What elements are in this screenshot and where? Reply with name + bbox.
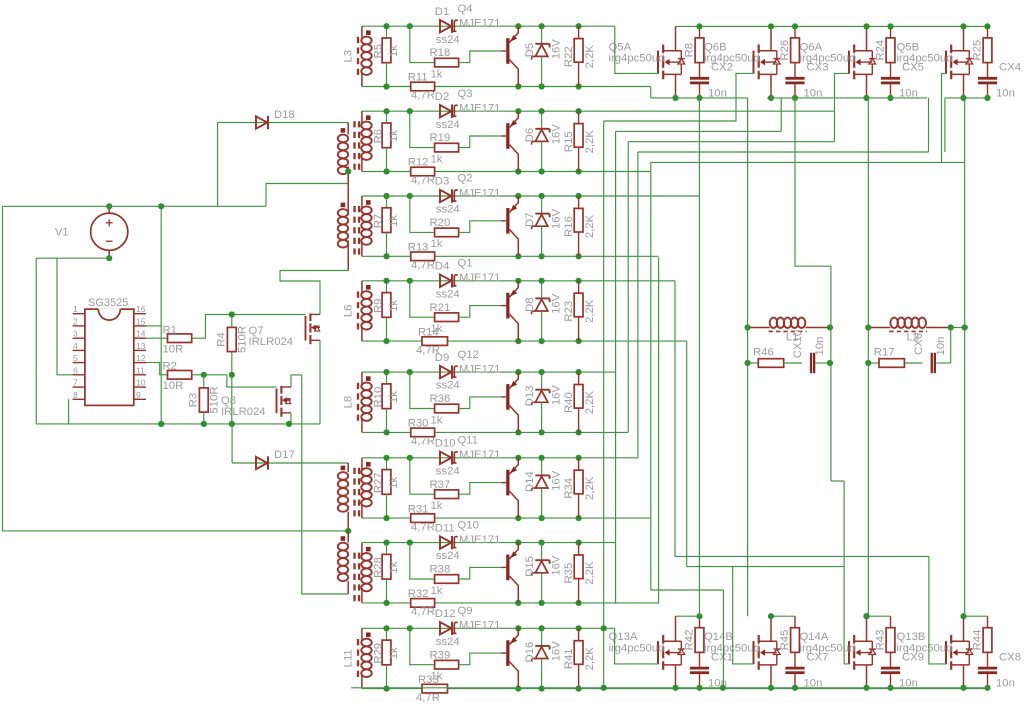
wire staircase U1 and M2 gate xyxy=(604,73,754,121)
IGBT Q13A irg4pc50ud xyxy=(657,641,659,664)
wire U3 left vertical xyxy=(627,142,629,433)
svg-text:R38: R38 xyxy=(430,564,451,576)
svg-text:Q9: Q9 xyxy=(458,605,473,617)
wire Q7 drain up xyxy=(280,271,348,315)
junction dots ground rail xyxy=(158,421,164,427)
wire primary row7 leads xyxy=(347,531,349,543)
wire feed to R37 xyxy=(410,458,435,494)
polarity dot row7 primary xyxy=(341,536,346,541)
transformer L6 secondary winding xyxy=(361,281,363,294)
svg-text:D13: D13 xyxy=(524,386,536,407)
wire D18 branch vertical xyxy=(217,123,219,207)
wire staircase U2 xyxy=(616,130,782,132)
junction dots row1 xyxy=(383,23,389,29)
resistor R36 1k xyxy=(435,404,459,413)
resistor R40 2,2K xyxy=(578,372,580,384)
wire M3 gate riser xyxy=(835,73,850,141)
diode D9 ss24 xyxy=(440,366,451,378)
resistor R24 xyxy=(890,26,892,38)
transistor Q2 MJE171 xyxy=(506,208,509,234)
svg-text:R35: R35 xyxy=(563,563,575,584)
svg-text:2,2K: 2,2K xyxy=(584,561,596,585)
polarity dot row4 secondary xyxy=(366,285,371,290)
resistor R46 xyxy=(748,362,759,364)
svg-text:16V: 16V xyxy=(551,39,563,60)
svg-text:4,7R: 4,7R xyxy=(411,521,435,533)
transformer row7 primary winding xyxy=(338,543,348,551)
junction dots LC group 1 xyxy=(745,324,751,330)
transformer core dashed line row1 xyxy=(357,37,359,75)
diode D12 ss24 xyxy=(440,622,451,634)
resistor R16 2,2K xyxy=(578,196,580,208)
resistor R37 1k xyxy=(435,490,459,499)
wire left edge vertical xyxy=(2,206,4,531)
resistor R4 510R xyxy=(231,315,233,328)
resistor R32 4,7R xyxy=(411,599,435,608)
svg-text:8: 8 xyxy=(73,390,78,400)
svg-text:R46: R46 xyxy=(753,347,774,359)
svg-text:R17: R17 xyxy=(874,347,895,359)
svg-text:12: 12 xyxy=(136,353,146,363)
svg-text:irg4pc50ud: irg4pc50ud xyxy=(609,53,665,65)
wire LC2 to extra vertical xyxy=(951,327,965,329)
resistor R43 xyxy=(890,616,892,628)
junction dots row6 xyxy=(383,455,389,461)
wire U4 right riser xyxy=(928,98,930,152)
capacitor CX4 10n xyxy=(978,77,997,80)
resistor R22 2,2K xyxy=(578,26,580,38)
wire row4 top rail xyxy=(362,280,675,282)
wire D18 horizontal xyxy=(218,122,349,124)
wire long vertical A xyxy=(747,98,749,616)
wire Q8 drain long down xyxy=(291,375,348,594)
svg-text:16V: 16V xyxy=(551,208,563,229)
wire R19 to base of Q3 xyxy=(459,136,501,148)
transformer core dashed line row5 xyxy=(357,383,359,421)
svg-text:D11: D11 xyxy=(435,522,455,534)
transformer core dashed line row2 xyxy=(353,121,355,172)
svg-text:R30: R30 xyxy=(408,418,429,430)
svg-text:16V: 16V xyxy=(551,124,563,145)
wire primary row6 top lead xyxy=(347,463,349,472)
polarity dot row6 primary xyxy=(341,466,346,471)
zener diode D7 16V xyxy=(541,196,543,214)
transformer core dashed line row7 xyxy=(353,553,355,604)
wire staircase U3 xyxy=(628,141,834,143)
svg-text:ss24: ss24 xyxy=(436,119,460,131)
wire feed to R19 xyxy=(410,111,435,147)
wire U1 left vertical xyxy=(603,121,605,688)
resistor R13 4,7R xyxy=(411,252,435,261)
junction dot R4/R2 cross xyxy=(229,372,235,378)
svg-text:MJE171: MJE171 xyxy=(459,103,500,115)
wire row3 top rail xyxy=(362,195,700,197)
svg-text:4: 4 xyxy=(73,341,78,351)
transformer L8 secondary winding xyxy=(361,372,363,385)
svg-text:irg4pc50ud: irg4pc50ud xyxy=(704,53,760,65)
svg-text:10n: 10n xyxy=(996,677,1015,689)
svg-text:R36: R36 xyxy=(430,393,451,405)
wire M8 gate riser xyxy=(929,556,946,664)
svg-text:D14: D14 xyxy=(524,471,536,492)
capacitor CX9 10n xyxy=(881,667,900,670)
svg-text:Q3: Q3 xyxy=(458,88,473,100)
svg-text:10n: 10n xyxy=(935,337,947,356)
transformer row3 primary winding xyxy=(338,209,348,217)
wire bottom unit 4 top rail xyxy=(964,615,988,617)
svg-text:ss24: ss24 xyxy=(436,380,460,392)
wire R44 to CX8 xyxy=(987,652,989,667)
svg-text:D5: D5 xyxy=(524,43,536,57)
svg-text:MJE171: MJE171 xyxy=(459,18,500,30)
svg-text:IRLR024: IRLR024 xyxy=(221,406,266,418)
svg-text:9: 9 xyxy=(136,390,141,400)
svg-text:R37: R37 xyxy=(430,479,451,491)
transformer L8 secondary winding xyxy=(361,458,363,471)
wire R26 to CX3 xyxy=(794,63,796,78)
transistor Q12 MJE171 xyxy=(506,384,509,410)
junction dot LC2 extra xyxy=(962,324,968,330)
diode D2 ss24 xyxy=(440,105,451,117)
svg-text:2,2K: 2,2K xyxy=(584,476,596,500)
wire feed to R20 xyxy=(410,196,435,232)
wire row5 top rail xyxy=(362,371,616,373)
wire row4 bottom rail xyxy=(362,340,687,342)
svg-text:7: 7 xyxy=(73,378,78,388)
svg-text:Q7: Q7 xyxy=(249,325,264,337)
wire R1 to Q7 gate xyxy=(192,315,306,339)
svg-text:2,2K: 2,2K xyxy=(584,45,596,69)
svg-text:D15: D15 xyxy=(524,556,536,577)
wire lower staircase L3 xyxy=(687,566,844,568)
diode D18 xyxy=(256,116,267,128)
svg-text:Q12: Q12 xyxy=(458,349,479,361)
transformer core dashed line row8 xyxy=(357,639,359,677)
svg-text:2,2K: 2,2K xyxy=(584,647,596,671)
svg-text:4,7R: 4,7R xyxy=(411,260,435,272)
resistor R17 xyxy=(868,362,879,364)
wire seg3 left riser xyxy=(944,98,946,152)
svg-text:MJE171: MJE171 xyxy=(459,187,500,199)
junction dots row5 xyxy=(383,369,389,375)
svg-text:CX4: CX4 xyxy=(999,62,1021,74)
wire R45 to CX7 xyxy=(794,652,796,667)
resistor R2 10R xyxy=(168,371,192,380)
wire row8 bottom rail xyxy=(362,688,991,690)
svg-text:R26: R26 xyxy=(779,40,791,61)
junction dots bottom unit 2 xyxy=(768,613,774,619)
wire row6 top rail xyxy=(362,457,638,459)
inductor L2 xyxy=(868,327,890,329)
wire R24 to CX5 xyxy=(890,63,892,78)
wire M7 gate stub xyxy=(844,663,849,665)
transformer L11 secondary winding xyxy=(361,628,363,641)
transformer core dashed line row3 xyxy=(353,206,355,257)
junction dots bottom unit 4 xyxy=(960,613,966,619)
resistor R35 2,2K xyxy=(578,543,580,555)
svg-text:Q11: Q11 xyxy=(458,435,479,447)
wire lower staircase L4 xyxy=(675,555,929,557)
svg-text:1k: 1k xyxy=(388,561,400,573)
resistor R19 1k xyxy=(435,143,459,152)
svg-text:D12: D12 xyxy=(435,608,456,620)
resistor R9 1k xyxy=(386,281,388,293)
wire row1 bottom rail xyxy=(362,86,651,88)
svg-text:R21: R21 xyxy=(430,302,451,314)
diode D3 ss24 xyxy=(440,190,451,202)
wire V1 minus down xyxy=(35,258,37,424)
zener diode D5 16V xyxy=(541,26,543,44)
transistor Q9 MJE171 xyxy=(506,640,509,666)
svg-text:Q10: Q10 xyxy=(458,519,479,531)
capacitor CX2 10n xyxy=(690,77,709,80)
svg-text:R14: R14 xyxy=(418,326,439,338)
diode D10 ss24 xyxy=(440,452,451,464)
svg-text:4,7R: 4,7R xyxy=(411,175,435,187)
wire long vertical D xyxy=(964,98,966,616)
wire bottom unit 3 top rail xyxy=(867,615,891,617)
svg-text:1k: 1k xyxy=(388,45,400,57)
wire M2 column to LC1 right xyxy=(795,98,831,328)
junction dots LC group 2 xyxy=(865,324,871,330)
SG3525 left pins 1-8 xyxy=(73,313,85,315)
resistor R15 2,2K xyxy=(578,111,580,123)
wire M6 gate riser xyxy=(733,567,754,664)
svg-text:Q1: Q1 xyxy=(458,258,473,270)
wire row3 bottom rail xyxy=(362,255,659,257)
svg-text:1k: 1k xyxy=(388,299,400,311)
svg-text:R45: R45 xyxy=(779,630,791,651)
transformer L3 secondary winding xyxy=(361,26,363,39)
resistor R14 4,7R xyxy=(422,337,448,346)
wire R37 to base of Q11 xyxy=(459,483,501,495)
svg-text:R7: R7 xyxy=(373,214,385,228)
wire feed to R39 xyxy=(410,628,435,664)
svg-text:1: 1 xyxy=(73,304,78,314)
svg-text:R10: R10 xyxy=(373,387,385,408)
transformer core dashed line row4 xyxy=(357,292,359,330)
svg-text:R40: R40 xyxy=(563,392,575,413)
wire feed to R38 xyxy=(410,543,435,579)
svg-text:D2: D2 xyxy=(435,91,449,103)
inductor L1 core dashed line xyxy=(769,330,807,332)
svg-text:D16: D16 xyxy=(524,642,536,663)
svg-text:2,2K: 2,2K xyxy=(584,391,596,415)
transistor Q4 MJE171 xyxy=(506,38,509,64)
SG3525 right pins 16-9 xyxy=(134,313,146,315)
svg-text:R39: R39 xyxy=(430,649,451,661)
resistor R11 4,7R xyxy=(411,82,435,91)
wire staircase U5 xyxy=(651,161,965,163)
polarity dot row2 primary xyxy=(341,128,346,133)
wire R18 to base of Q4 xyxy=(459,51,501,63)
wire R38 to base of Q10 xyxy=(459,567,501,579)
svg-text:D6: D6 xyxy=(524,128,536,142)
junction dots row8 xyxy=(383,625,389,631)
svg-text:4,7R: 4,7R xyxy=(411,436,435,448)
svg-text:R12: R12 xyxy=(408,157,429,169)
wire row7 bottom rail xyxy=(362,602,659,604)
svg-text:Q4: Q4 xyxy=(458,3,473,15)
svg-text:D8: D8 xyxy=(524,297,536,311)
svg-text:ss24: ss24 xyxy=(436,204,460,216)
svg-text:L3: L3 xyxy=(343,50,355,63)
svg-text:1k: 1k xyxy=(388,130,400,142)
wire staircase U4 xyxy=(638,151,929,153)
transformer row2 primary winding xyxy=(338,135,348,143)
junction dot LC2 left bottom xyxy=(863,613,869,619)
wire chain 675 vertical xyxy=(674,281,676,557)
svg-text:R25: R25 xyxy=(972,40,984,61)
wire row8 top rail xyxy=(362,627,615,629)
wire row6 bottom rail xyxy=(362,517,651,519)
svg-text:irg4pc50ud: irg4pc50ud xyxy=(704,642,760,654)
svg-text:R32: R32 xyxy=(408,588,429,600)
wire V1 minus branch pin6 xyxy=(57,258,73,375)
IGBT Q14A irg4pc50ud xyxy=(848,641,850,664)
svg-text:1k: 1k xyxy=(431,153,443,165)
resistor R27 1k xyxy=(386,458,388,470)
svg-text:R9: R9 xyxy=(373,299,385,313)
zener diode D13 16V xyxy=(541,372,543,390)
wire chain 686 vertical xyxy=(686,341,688,566)
svg-text:V1: V1 xyxy=(55,227,68,239)
svg-text:Q8: Q8 xyxy=(221,395,236,407)
resistor R20 1k xyxy=(435,228,459,237)
diode D1 ss24 xyxy=(440,20,451,32)
svg-text:10R: 10R xyxy=(163,344,184,356)
transistor Q10 MJE171 xyxy=(506,555,509,581)
zener diode D15 16V xyxy=(541,543,543,561)
svg-text:6: 6 xyxy=(73,365,78,375)
svg-text:5: 5 xyxy=(73,353,78,363)
svg-text:R27: R27 xyxy=(373,472,385,493)
svg-text:10: 10 xyxy=(136,378,146,388)
wire primary row6 bottom to tap xyxy=(347,512,349,531)
inductor L2 core dashed line xyxy=(889,330,927,332)
svg-text:R43: R43 xyxy=(875,630,887,651)
wire long vertical 699 column xyxy=(698,98,700,616)
resistor R3 510R xyxy=(203,375,205,388)
polarity dot row8 secondary xyxy=(366,633,371,638)
svg-text:510R: 510R xyxy=(237,326,249,353)
IC U1 SG3525 body xyxy=(85,309,134,405)
wire row5 bottom rail xyxy=(362,431,628,433)
wire top emitter rail segment 1 xyxy=(651,97,748,99)
svg-text:R24: R24 xyxy=(875,40,887,61)
resistor R12 4,7R xyxy=(411,167,435,176)
zener diode D8 16V xyxy=(541,281,543,299)
svg-text:R1: R1 xyxy=(163,325,177,337)
polarity dot row2 secondary xyxy=(366,115,371,120)
svg-text:16V: 16V xyxy=(551,641,563,662)
zener diode D16 16V xyxy=(541,628,543,646)
resistor R28 1k xyxy=(386,543,388,555)
wire top emitter rail segment 3 xyxy=(945,97,988,99)
svg-text:R4: R4 xyxy=(216,332,228,346)
capacitor CX1 10n xyxy=(690,667,709,670)
junction dot bottom rail extra xyxy=(720,685,726,691)
svg-text:R31: R31 xyxy=(408,503,429,515)
svg-text:510R: 510R xyxy=(209,386,221,413)
svg-text:R29: R29 xyxy=(373,643,385,664)
svg-text:15: 15 xyxy=(136,316,146,326)
svg-text:1k: 1k xyxy=(431,414,443,426)
wire R36 to base of Q12 xyxy=(459,397,501,409)
svg-text:ss24: ss24 xyxy=(436,465,460,477)
resistor R7 1k xyxy=(386,196,388,208)
wire node to Q8 gate xyxy=(227,375,277,387)
wire V1 minus left xyxy=(36,257,109,259)
inductor L1 xyxy=(748,327,770,329)
svg-text:R6: R6 xyxy=(373,129,385,143)
svg-text:irg4pc50ud: irg4pc50ud xyxy=(609,642,665,654)
svg-text:13: 13 xyxy=(136,341,146,351)
wire feed to R18 xyxy=(410,26,435,62)
resistor R39 1k xyxy=(435,660,459,669)
wire V1 plus rail xyxy=(3,205,267,207)
transistor Q8 IRLR024 xyxy=(276,389,278,414)
junction dots row4 xyxy=(383,278,389,284)
svg-text:IRLR024: IRLR024 xyxy=(249,336,294,348)
resistor R8 xyxy=(699,26,701,38)
junction dots top unit 2 xyxy=(768,23,774,29)
svg-text:R33: R33 xyxy=(418,674,439,686)
transformer core dashed line row6 xyxy=(353,468,355,519)
svg-text:ss24: ss24 xyxy=(436,288,460,300)
svg-text:CX8: CX8 xyxy=(999,651,1021,663)
junction dots row3 xyxy=(383,193,389,199)
svg-text:4,7R: 4,7R xyxy=(411,606,435,618)
svg-text:D1: D1 xyxy=(435,6,449,18)
resistor R23 2,2K xyxy=(578,281,580,293)
svg-text:Q2: Q2 xyxy=(458,173,473,185)
svg-text:D4: D4 xyxy=(435,261,449,273)
svg-text:D7: D7 xyxy=(524,213,536,227)
junction dots row2 xyxy=(383,108,389,114)
resistor R44 xyxy=(987,616,989,628)
polarity dot row1 secondary xyxy=(366,30,371,35)
svg-text:MJE171: MJE171 xyxy=(459,620,500,632)
wire row8 gate route xyxy=(615,628,658,664)
resistor R42 xyxy=(699,616,701,628)
IGBT Q5A irg4pc50ud xyxy=(657,51,659,74)
wire chain 650 vertical xyxy=(650,162,652,590)
polarity dot row3 primary xyxy=(341,203,346,208)
resistor R26 xyxy=(794,26,796,38)
svg-text:R11: R11 xyxy=(408,72,428,84)
IGBT Q5B irg4pc50ud xyxy=(945,51,947,74)
svg-text:R13: R13 xyxy=(408,242,429,254)
svg-text:ss24: ss24 xyxy=(436,550,460,562)
svg-text:MJE171: MJE171 xyxy=(459,449,500,461)
wire R2 to node xyxy=(192,374,227,376)
IGBT Q14B irg4pc50ud xyxy=(753,641,755,664)
svg-text:4,7R: 4,7R xyxy=(411,90,435,102)
svg-text:2,2K: 2,2K xyxy=(584,214,596,238)
wire R20 to base of Q2 xyxy=(459,221,501,233)
IGBT Q6A irg4pc50ud xyxy=(848,51,850,74)
svg-text:MJE171: MJE171 xyxy=(459,272,500,284)
transformer L5 secondary winding xyxy=(361,196,363,209)
wire row1 emitter step xyxy=(650,87,652,98)
wire R25 to CX4 xyxy=(987,63,989,78)
svg-text:irg4pc50ud: irg4pc50ud xyxy=(897,53,953,65)
svg-text:R22: R22 xyxy=(563,46,575,67)
wire R42 to CX1 xyxy=(699,652,701,667)
wire R43 to CX9 xyxy=(890,652,892,667)
svg-text:R2: R2 xyxy=(163,361,177,373)
